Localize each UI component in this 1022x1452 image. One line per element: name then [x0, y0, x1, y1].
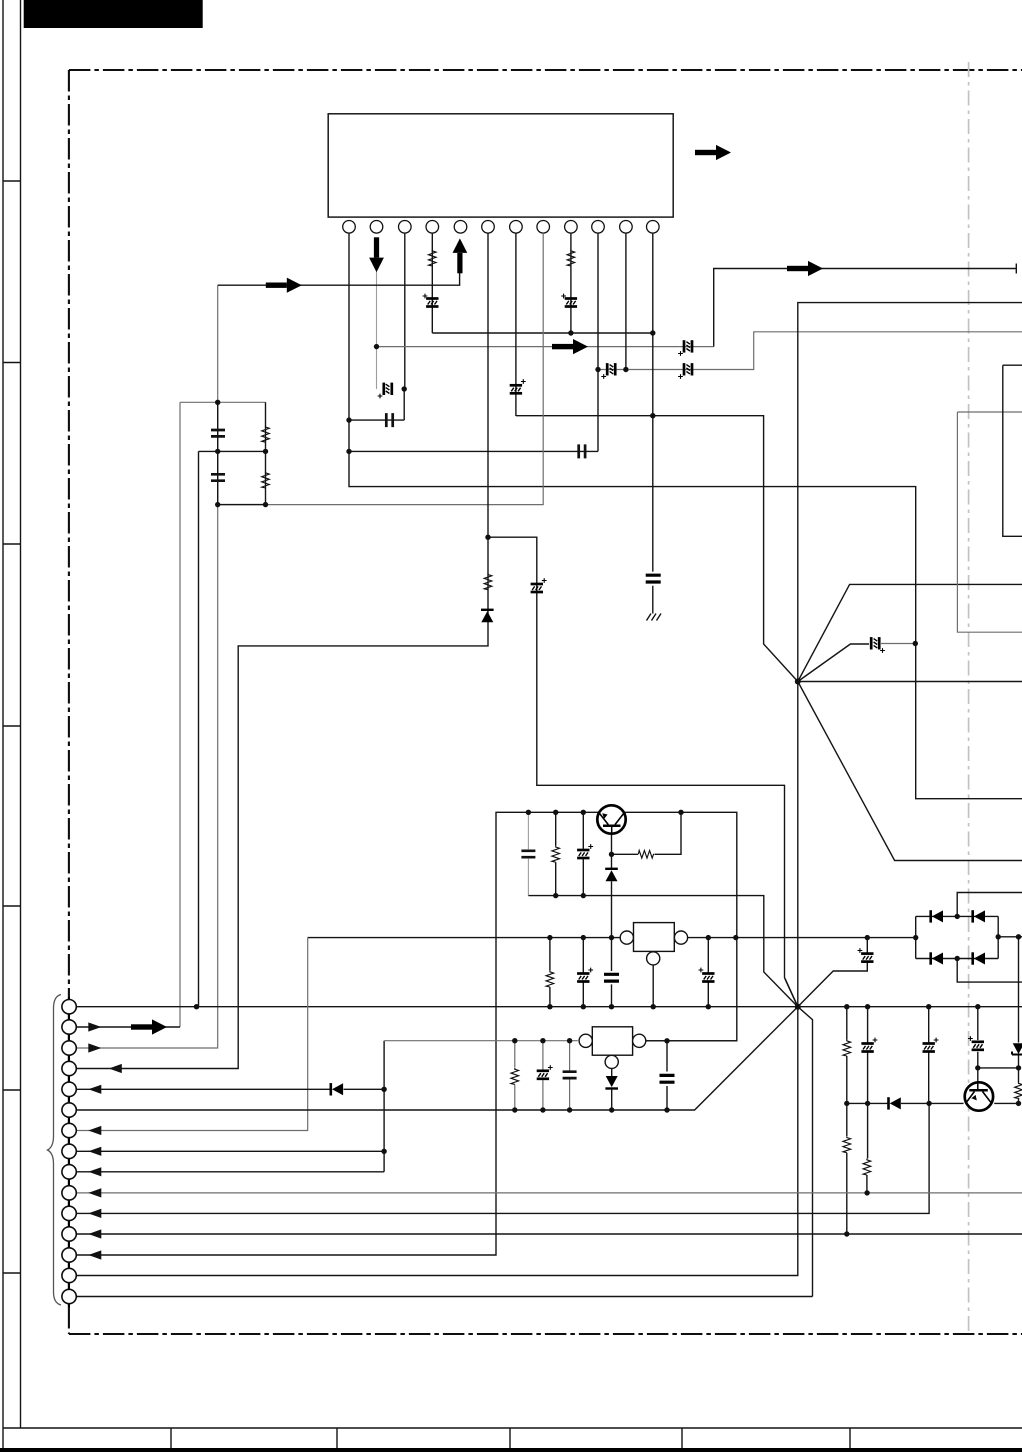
transistor Q1	[597, 805, 625, 834]
gray box right	[957, 412, 1022, 632]
arrow line y285.2 into pin5 up-arrow	[218, 273, 460, 285]
wire: Q1 column down through cap to ground rail	[611, 881, 613, 1006]
vertical dash-dot fold line	[968, 62, 970, 1334]
wire: pin11 down to y369.5	[625, 233, 627, 369]
arrow small right CN3	[88, 1043, 101, 1052]
wire: signal line y346.6 from pin2 node with arrow, up at x713.7, out right y268.5	[377, 346, 714, 348]
wire: x528.4 column with cap	[527, 812, 529, 895]
wire: base link y1067.9	[978, 1067, 1019, 1069]
arrow small left CN12	[88, 1229, 101, 1238]
capacitor C9 column	[569, 1041, 571, 1110]
wire: U2 bottom to ground rail	[652, 965, 654, 1007]
arrow A7 thick up on pin5	[453, 238, 468, 273]
capacitor CP11 polarized column	[707, 938, 709, 1007]
title block (solid black)	[24, 0, 203, 28]
wire: pin6 branch right, down x536.8 with cap, right y785.3, down x784.5, diag to star2	[488, 537, 798, 1007]
diode D3 below U3	[605, 1076, 618, 1089]
wire: left caps block top rail y402.3	[180, 402, 266, 1027]
arrow small right CN2	[88, 1022, 101, 1031]
wire: CN5 line diode D4 to node x384.1	[77, 1088, 385, 1090]
capacitor CP17 column	[542, 1041, 544, 1110]
capacitor CP16 polarized	[972, 1042, 984, 1050]
arrow small left CN9	[88, 1167, 101, 1176]
wire: bold mid rail y451.4	[199, 402, 266, 504]
zener ZD1	[1012, 1043, 1022, 1057]
capacitor C2	[211, 474, 225, 480]
IC U1 block	[328, 114, 673, 217]
wire: star2 diag to x812.5 down to CN15 line	[77, 1007, 813, 1297]
arrow A5 thick on CN2 line	[131, 1019, 167, 1034]
capacitor CP14 column	[866, 1007, 869, 1193]
arrow small left CN11	[88, 1209, 101, 1218]
wire: CN10 line full	[77, 1192, 1022, 1194]
bridge diodes D6 D7 D8 D9	[931, 910, 943, 922]
IC output arrow A1	[695, 145, 731, 160]
wire: pin2 below arrow down to cap C-P4	[376, 272, 378, 390]
bottom black bar	[0, 1448, 1022, 1452]
arrow small left CN7	[88, 1126, 101, 1135]
wire: pin8 down to y504.6 then left to caps block	[218, 233, 544, 505]
capacitor CP13 polarized on y643.5	[871, 637, 879, 649]
wire: star1 diag to cap y643.5 node x915.3	[798, 644, 869, 682]
wire: star1 diag down-right to y860.5 out	[798, 682, 1022, 861]
capacitor CP8 polarized on x536.8	[531, 584, 543, 592]
wire: Q1 emitter resistor loop	[612, 812, 682, 868]
diode D1	[481, 610, 494, 623]
resistor R6 horizontal	[638, 851, 654, 859]
page edge strip	[3, 0, 21, 1448]
capacitor CP6 polarized on y369.5	[607, 363, 615, 375]
capacitor C7	[604, 974, 619, 981]
capacitor CP7 polarized on y369.5	[684, 363, 692, 375]
resistor R9 column	[514, 1041, 516, 1110]
wire: CN6 rail y1110 to diag star2	[77, 1007, 798, 1110]
wire: star1 down to star2 and down to CN14 line	[77, 682, 798, 1276]
wire: pin6 chain res diode, left y645.9, down x238.2, to CN4 line	[77, 233, 488, 1068]
arrow small left CN5	[88, 1085, 101, 1094]
capacitor C6	[521, 851, 535, 857]
resistor R10 column	[846, 1007, 848, 1234]
capacitor C5	[646, 575, 661, 582]
resistor R1 on pin4	[429, 250, 437, 266]
transistor Q2	[965, 1082, 993, 1111]
wire: x785 from star2 diag	[785, 979, 798, 1007]
capacitor CP10 polarized column	[582, 938, 584, 1007]
capacitor C4 series on y451.4	[579, 444, 585, 458]
wire: x867.3 cap branch from star2	[798, 938, 868, 1007]
wire: pin10 down to y451.4	[349, 233, 598, 451]
connector brace	[48, 995, 62, 1306]
resistor R4	[262, 472, 270, 488]
capacitor CP9 polarized	[577, 850, 589, 858]
diode bridge	[916, 916, 999, 958]
wire: bridge center taps out right	[957, 893, 1022, 983]
capacitor CP5 polarized series y346.6	[684, 340, 692, 352]
connector chain line	[68, 997, 70, 1307]
black box right	[1003, 365, 1022, 536]
wire: CN12 line full	[77, 1233, 1022, 1235]
capacitor C8 column	[666, 1041, 668, 1110]
capacitor C3	[386, 413, 392, 427]
resistor R11	[843, 1136, 851, 1152]
diode D5	[889, 1097, 901, 1109]
resistor R8 column	[549, 938, 551, 1007]
wire: star1 right y681.5 out	[798, 681, 1022, 683]
capacitor CP12 polarized	[861, 954, 873, 962]
connector circles CN1-CN15	[62, 1000, 76, 1304]
regulator U3	[579, 1027, 646, 1069]
resistor R12	[863, 1159, 871, 1175]
resistor R5 on pin6	[484, 573, 492, 589]
regulator U2	[620, 923, 687, 965]
arrow small left CN10	[88, 1188, 101, 1197]
capacitor CP3 polarized on pin7	[510, 385, 522, 393]
arrow A6 thick down on pin2	[369, 237, 384, 272]
wire: gray line y369.5 pin10/pin11 caps, up at x753.7, out right y331.8	[598, 332, 1022, 370]
wire: x977.8 column cap to Q2	[977, 1007, 979, 1082]
capacitor CP1 polarized on pin4	[426, 299, 438, 307]
bottom table	[3, 1428, 1022, 1448]
wire: star1 diag up-right to y584.4 out right	[798, 584, 1022, 681]
resistor R3	[262, 426, 270, 442]
resistor R13	[1015, 1082, 1022, 1098]
wire: pin3 down to node, jog to cap C3	[349, 233, 405, 420]
arrow small left CN8	[88, 1147, 101, 1156]
wire: star1 up to y302.6 out right	[798, 303, 1022, 682]
wire: rail y937.6 regulator U2 row	[77, 938, 308, 1131]
wire: pin12 down with dots, cap to ground	[652, 233, 654, 613]
ground	[647, 614, 662, 621]
arrow A3 on y346.6	[552, 339, 588, 354]
IC pins	[343, 221, 659, 234]
arrow small left CN13	[88, 1250, 101, 1259]
wire: x384.1 node column CN8 CN9	[77, 1041, 385, 1172]
diode D4	[331, 1083, 343, 1095]
wire: pin9 chain down to bus y333	[570, 233, 572, 333]
arrow small left CN4	[109, 1064, 122, 1073]
resistor R2 on pin9	[567, 250, 575, 266]
arrow A4 on y268.5	[787, 261, 823, 276]
capacitor CP2 polarized on pin9	[565, 299, 577, 307]
wire: y1103.4 row with diode D5	[847, 1102, 1019, 1104]
wire: CN11 line right end up x929.1	[77, 1103, 930, 1213]
diode D2	[605, 869, 618, 882]
wire: transistor bottom rail y895.6 to x763.8 down diag star2	[528, 896, 797, 1007]
wire: x217.7 from arrow corner down to CN3	[77, 285, 218, 1048]
wire: transistor rail y812.3 from x496 to x736.8 down to reg2 out	[77, 812, 737, 1255]
capacitor CP15 column	[928, 1007, 930, 1104]
wire: pin7 down cap then right y415.7 to x763.6 down diag to star1	[516, 233, 798, 681]
wire: pin1 down, right at y487, down at x915.7, out right at y798.7	[349, 233, 1022, 799]
capacitor CP4 polarized between pin2 and pin3	[384, 383, 392, 395]
resistor R7	[552, 846, 560, 862]
wire: zener column x1018.5	[1018, 937, 1020, 1104]
wire: pin4 chain down to bus y333	[432, 233, 653, 333]
capacitor C1	[211, 430, 225, 436]
arrow A2 thick on y285.2	[266, 278, 302, 293]
wire: CN1 ground rail y1006.7 full width	[77, 1006, 1022, 1008]
wire: regulator U3 rail y1040.7	[384, 1040, 578, 1042]
wire: x198.5 down to CN1 line	[198, 451, 200, 1006]
